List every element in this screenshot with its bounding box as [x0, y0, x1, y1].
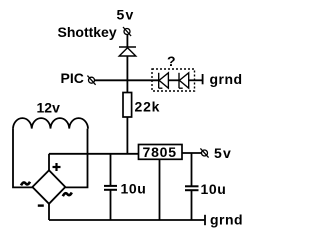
svg-text:7805: 7805 [143, 144, 177, 160]
dotted box around protection diodes [152, 69, 195, 91]
wire resistor to plus rail [126, 117, 128, 154]
label 12v [37, 100, 61, 116]
wire coil left to bridge [13, 129, 33, 188]
resistor R1 [123, 93, 132, 118]
label 10u C1 [121, 181, 147, 197]
wire ground rail [49, 219, 204, 221]
label tilde right [63, 193, 72, 197]
diode D2 [159, 73, 169, 88]
label minus [38, 204, 44, 206]
diode D3 [179, 73, 189, 88]
capacitor C2 plates [185, 186, 199, 190]
regulator U1 7805 box [139, 145, 183, 160]
wire 7805 output to 5v terminal [182, 152, 202, 154]
label ? [167, 53, 176, 69]
wire 5v terminal to diode [126, 34, 128, 47]
svg-text:5v: 5v [117, 7, 135, 23]
label tilde left [21, 182, 30, 186]
svg-text:PIC: PIC [61, 70, 84, 86]
terminal PIC [87, 76, 95, 85]
wire bridge minus to ground rail [48, 204, 50, 220]
svg-text:10u: 10u [121, 181, 147, 197]
label 5v right [214, 145, 232, 161]
label 22k [135, 99, 161, 115]
terminal 5v right [200, 148, 208, 157]
label grnd bottom [210, 212, 243, 228]
wire between diodes [168, 79, 179, 81]
label 10u C2 [201, 181, 227, 197]
wire bridge plus output [48, 154, 50, 171]
terminal 5v top [123, 27, 131, 36]
svg-text:grnd: grnd [210, 212, 243, 228]
capacitor C1 plates [104, 186, 117, 190]
capacitor C1 top wire [110, 154, 112, 185]
label Shottkey [58, 24, 117, 40]
bridge rectifier [32, 170, 65, 204]
wire plus rail [49, 153, 139, 155]
capacitor C2 top wire [191, 153, 193, 186]
wire 7805 ground pin [159, 159, 161, 220]
svg-text:10u: 10u [201, 181, 227, 197]
diode D1 Schottky [119, 47, 136, 56]
coil 12v secondary [13, 118, 88, 128]
label grnd top [210, 71, 243, 87]
terminal grnd bottom [204, 215, 206, 225]
svg-text:Shottkey: Shottkey [58, 24, 117, 40]
svg-text:5v: 5v [214, 145, 232, 161]
svg-text:grnd: grnd [210, 71, 243, 87]
terminal grnd top [202, 74, 204, 84]
wire diodes to grnd terminal [189, 79, 202, 81]
wire diode to resistor (junction at PIC net) [126, 56, 128, 93]
label PIC [61, 70, 84, 86]
wire coil right to bridge [65, 129, 87, 188]
capacitor C1 bottom wire [110, 191, 112, 221]
svg-text:22k: 22k [135, 99, 161, 115]
label 7805 [143, 144, 177, 160]
label 5v top [117, 7, 135, 23]
label plus [53, 163, 61, 171]
svg-text:12v: 12v [37, 100, 61, 116]
wire PIC net [94, 79, 158, 81]
capacitor C2 bottom wire [191, 191, 193, 220]
svg-text:?: ? [167, 53, 176, 69]
